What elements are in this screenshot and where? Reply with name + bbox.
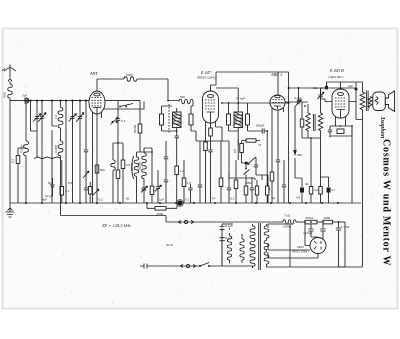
svg-text:280: 280 (297, 153, 302, 157)
svg-text:50µ: 50µ (100, 168, 105, 172)
svg-text:70±10: 70±10 (305, 216, 314, 220)
oscillator coil bracket (132, 156, 134, 179)
cathode resistor chain x97 (93, 125, 100, 203)
vertical wire x140 from anode line (139, 101, 141, 124)
top wire y72 to ABC1 (216, 72, 289, 95)
transformer secondary connections (267, 224, 291, 267)
tube V2 grid top wire (211, 72, 217, 91)
cap x247 bottom (245, 139, 256, 203)
bottom ground bus (10, 202, 361, 204)
resistor box 70+-10 (305, 216, 323, 224)
IF transformer 1 top coil (168, 79, 193, 106)
interstage transformer secondary zigzag (318, 88, 322, 138)
V3 grid bottom components (262, 118, 280, 203)
svg-text:7 kΩ: 7 kΩ (284, 214, 291, 218)
tube V1 anode wire to top (96, 79, 98, 91)
electrolytic cap mid (320, 221, 325, 240)
wave band switch box (103, 102, 144, 110)
rectifier to transformer wires (268, 244, 318, 258)
svg-text:1µF: 1µF (159, 198, 164, 202)
heater line from transformer right (268, 224, 290, 267)
trimmer pair mid x112-122 (111, 118, 119, 125)
V2 cathode components (208, 125, 212, 203)
svg-text:40: 40 (305, 182, 309, 186)
svg-text:0,05: 0,05 (3, 92, 7, 98)
B plus from rectifier cathode (304, 221, 310, 245)
svg-text:1µ: 1µ (212, 196, 216, 200)
tube V1 envelope (89, 91, 105, 114)
svg-text:0,1: 0,1 (65, 189, 70, 193)
resistor box x184 bottom (182, 160, 191, 203)
svg-text:50000: 50000 (133, 124, 137, 133)
AVC filter x221 (216, 141, 223, 203)
rail strain arrows (178, 220, 194, 223)
V4 pin wires (336, 113, 346, 126)
IF1 bottom components (175, 136, 185, 203)
wire tone line from transformer (341, 88, 357, 126)
svg-text:Isophon: Isophon (379, 116, 386, 139)
band switch wavy wire (34, 157, 61, 159)
detector cap 500pF (256, 124, 267, 189)
output transformer primary (356, 82, 365, 120)
svg-text:0,009: 0,009 (20, 145, 24, 153)
rectifier anode wire (311, 234, 318, 238)
large junction blob on bus (177, 200, 184, 207)
primary tap winding left small (216, 224, 232, 266)
screen feed line y103 (248, 102, 289, 104)
wire coil to ground bus (25, 156, 27, 203)
B plus line y88 (289, 87, 356, 102)
tube V2 pin wires down (206, 115, 216, 203)
wire left rail down to ground bus (9, 101, 11, 203)
tube V3 envelope (270, 95, 285, 110)
volume switch contact (244, 165, 250, 179)
junction dot bus x26 (25, 100, 27, 102)
IF2 coil hatched (234, 103, 243, 134)
mains wire with strain arrows (151, 264, 200, 267)
grid resistor box 0,1 (60, 160, 70, 203)
resistor box x90 low (88, 182, 92, 203)
output transformer secondary (368, 97, 372, 108)
junction dots misc (167, 100, 353, 132)
interstage transformer primary zigzag (306, 104, 310, 138)
IF1 primary tuning cap box left (160, 106, 173, 131)
trimmer right of osc (155, 170, 162, 203)
junction dots near speaker (348, 84, 358, 91)
coil 0,008 (54, 128, 63, 160)
mains RF caps 0,1uF (216, 224, 233, 266)
ground symbol (6, 203, 15, 217)
mains line lower y267 (339, 266, 346, 268)
svg-text:2000: 2000 (324, 216, 331, 220)
svg-text:E 443 H: E 443 H (329, 68, 345, 73)
screen bypass components x113-120 (111, 142, 131, 203)
resistor box 50000 x140 (133, 124, 142, 152)
coupling cap to grid (254, 165, 262, 180)
cap x261 bottom (266, 186, 269, 203)
padder capacitor 5u (45, 178, 55, 198)
mains switch (199, 263, 216, 268)
svg-text:1803: 1803 (297, 245, 304, 249)
wire vertical x26 (25, 103, 27, 141)
tube V4 label E443H (328, 68, 345, 79)
grid chain top connection (321, 82, 327, 92)
IF2 secondary cap box (246, 103, 250, 131)
svg-text:( RES 964 ): ( RES 964 ) (328, 75, 344, 79)
schematic right edge wire (290, 203, 363, 267)
coil 1,0 (54, 101, 63, 128)
svg-text:30000: 30000 (138, 161, 142, 170)
rectifier label 1803 RGN1064 (292, 245, 309, 254)
resistor boxes AF section (270, 160, 274, 203)
svg-text:500pF: 500pF (256, 124, 265, 128)
svg-text:4µ: 4µ (272, 196, 276, 200)
field coil 7kOhm (283, 214, 305, 229)
wire transformer bottom down (351, 126, 353, 160)
svg-text:77 kpF: 77 kpF (236, 97, 245, 101)
tone cap bottom wire x352 (329, 136, 331, 137)
oscillator section wires (137, 148, 153, 203)
trimmer arrow x95 low (93, 189, 100, 196)
mixer grid components x160-170 (162, 131, 169, 203)
7uF capacitor at bus left (22, 94, 30, 104)
interstage transformer core (313, 114, 315, 131)
rectifier filament wires (305, 222, 334, 258)
electrolytic 4,5uF left (303, 221, 314, 237)
coupling cap 0,1 with arrow (285, 96, 308, 106)
diode load wires ABC1 (222, 139, 238, 160)
wire vertical x86 (84, 100, 88, 189)
B plus feed wires right section (350, 160, 354, 203)
tube V3 pin wires (272, 108, 284, 160)
top bus (10, 100, 89, 102)
gang line y215 (61, 160, 167, 216)
wire trimmer to switch (36, 123, 38, 157)
coil 1000 in anode line (124, 73, 137, 81)
screen divider wires x200 (196, 141, 205, 203)
svg-text:ABC 1: ABC 1 (270, 72, 282, 77)
transformer bottom wire (267, 266, 291, 268)
svg-text:0,008: 0,008 (54, 145, 58, 153)
B plus rail y222 (166, 216, 283, 223)
tuning capacitor main right (76, 100, 84, 204)
transformer core (259, 223, 261, 270)
svg-text:1,0: 1,0 (54, 115, 58, 120)
speaker cone (385, 91, 394, 112)
wire antenna to top bus (9, 98, 11, 101)
svg-text:4µF: 4µF (348, 84, 353, 88)
electrolytic 4,7 x328 (321, 177, 336, 203)
IF1 base wires (162, 104, 223, 141)
IF2 primary cap box (227, 103, 231, 131)
anode line y79 (97, 78, 168, 80)
transformer secondary windings (264, 224, 269, 267)
mains plug symbol (140, 264, 151, 269)
svg-text:0,3: 0,3 (11, 159, 15, 164)
resistor box x257 low (255, 180, 258, 203)
IF2 bottom wires (229, 131, 261, 145)
svg-text:1000: 1000 (126, 73, 133, 77)
svg-text:50: 50 (248, 181, 252, 185)
transformer primary winding (250, 224, 255, 268)
padder resistor box x152 (150, 151, 154, 203)
transformer primary to bus wire (362, 120, 364, 204)
grid cap 0,1 on V1 (105, 101, 140, 203)
coil 0,009 (20, 141, 29, 156)
primary tap winding mid (233, 224, 244, 263)
rectifier tube V5 (310, 238, 326, 254)
svg-text:4µF: 4µF (42, 198, 47, 202)
tiny value labels bottom strip (42, 181, 276, 202)
bias tap line y208 with 2000 box (147, 203, 177, 216)
V2 screen wire (216, 127, 223, 141)
scan speckle noise (7, 33, 397, 306)
AVC arrow x295 (293, 106, 302, 178)
AF bottom feed line y178 (229, 172, 255, 180)
svg-text:ANT: ANT (89, 71, 98, 76)
svg-text:74: 74 (258, 143, 262, 147)
IF1 secondary cap box right (189, 106, 193, 131)
cap x284 bottom (278, 160, 286, 203)
svg-text:Cosmos W und Mentor W: Cosmos W und Mentor W (381, 139, 392, 266)
wire vertical x52 (51, 100, 57, 204)
resistor box x190 bottom (188, 184, 192, 203)
svg-text:500: 500 (180, 95, 185, 99)
svg-text:0,5: 0,5 (233, 149, 237, 154)
svg-text:(RENS 1264): (RENS 1264) (197, 76, 215, 80)
svg-text:0,5: 0,5 (68, 181, 73, 185)
V2 bias resistor box (204, 142, 208, 151)
wire x345 vertical (344, 222, 346, 267)
tube V2 envelope (203, 91, 219, 123)
svg-text:4,7: 4,7 (331, 188, 336, 192)
IF2 top wires (222, 102, 248, 141)
svg-text:7µF: 7µF (22, 94, 27, 98)
antenna coupling coil 0,05 (3, 84, 13, 98)
output transformer core (366, 91, 368, 112)
trimmer capacitor right (69, 101, 77, 203)
tone capacitor assembly (328, 126, 352, 136)
svg-text:0,1µF: 0,1µF (225, 224, 233, 228)
oscillator coil pair (130, 148, 146, 183)
mains wire to transformer (222, 266, 253, 268)
svg-text:0,2: 0,2 (99, 198, 104, 202)
electrolytic 4,5uF right (336, 221, 350, 267)
tube V2 anode wire to IF2 (216, 88, 238, 103)
junction dots on ground bus (25, 202, 339, 204)
trimmer pot left low (83, 171, 89, 203)
wire x236 bottom (229, 160, 238, 203)
svg-text:0,1: 0,1 (121, 119, 126, 123)
junction dots top bus (29, 100, 73, 102)
IF1 coil hatched (173, 108, 182, 131)
grid trimmer cap at V4 (313, 86, 332, 102)
svg-text:4,0: 4,0 (314, 188, 319, 192)
antenna (2, 65, 15, 85)
resistor box x311 low (305, 177, 313, 203)
cap x229 bottom (227, 160, 231, 203)
coil box 04 x246 (244, 178, 248, 203)
svg-text:0,1: 0,1 (185, 198, 190, 202)
svg-text:+4,5µF: +4,5µF (303, 231, 313, 235)
svg-text:5µ: 5µ (48, 181, 52, 185)
AF load resistor box horizontal (242, 139, 262, 147)
tube V1 pin wires (93, 110, 102, 203)
resistor box 50u x97 (95, 165, 105, 173)
interstage bottom wire (302, 137, 321, 177)
top wire y82 output (327, 82, 363, 120)
tuning capacitor main left (38, 100, 46, 204)
wire vertical x66 (65, 100, 67, 204)
svg-text:4,5: 4,5 (296, 196, 301, 200)
tube V4 envelope (332, 89, 349, 118)
tube V2 label E447 (197, 70, 215, 80)
volume potentiometer (233, 141, 256, 166)
B plus feed vertical x288.6 (288, 72, 290, 203)
grid blob (325, 86, 328, 90)
cap x252 low (250, 177, 254, 203)
electrolytic 4,5uF x302 (296, 178, 304, 203)
resistor box 0,3 (11, 148, 27, 203)
osc trimmer (141, 186, 148, 203)
svg-text:30 W: 30 W (166, 243, 173, 247)
voltage selector dashes (222, 224, 240, 260)
svg-text:0,1: 0,1 (230, 197, 235, 201)
svg-text:50: 50 (126, 197, 130, 201)
grid leak resistor box x302 (294, 102, 304, 138)
resistor box 2000 right (323, 216, 345, 224)
svg-text:E 447: E 447 (200, 70, 212, 75)
speaker body (373, 92, 386, 111)
resistor box x320 low (314, 138, 322, 203)
trimmer capacitor left (33, 101, 41, 123)
wire vertical x30 (31, 101, 38, 131)
